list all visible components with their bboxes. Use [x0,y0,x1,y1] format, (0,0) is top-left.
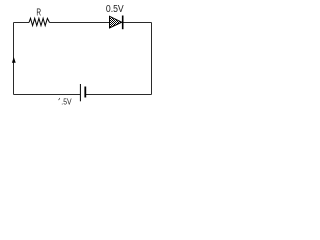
wire: right vertical [151,23,153,95]
current arrow on left wire (pointing up) [12,57,16,63]
svg-text:0.5V: 0.5V [106,4,124,15]
svg-text:R: R [36,7,41,19]
wire: top-left segment from corner to resistor [14,22,30,24]
wire: top segment from resistor to diode [50,22,110,24]
battery cell: long thin plate (left) [80,84,81,101]
diode D1 triangle (checkerboard fill) [110,16,122,28]
wire: bottom-left segment from battery to corner [14,94,81,96]
wire: bottom-right segment from corner to battery [86,94,152,96]
diode cathode bar [122,16,124,30]
wire: top-right segment from diode bar to corner [123,22,152,24]
battery cell: short thick plate (right) [84,87,86,98]
svg-text:.5V: .5V [61,98,72,107]
label 1.5V (the 1 renders as a small tick) [58,98,60,101]
wire: left vertical [13,23,15,95]
resistor R zigzag [29,18,50,25]
